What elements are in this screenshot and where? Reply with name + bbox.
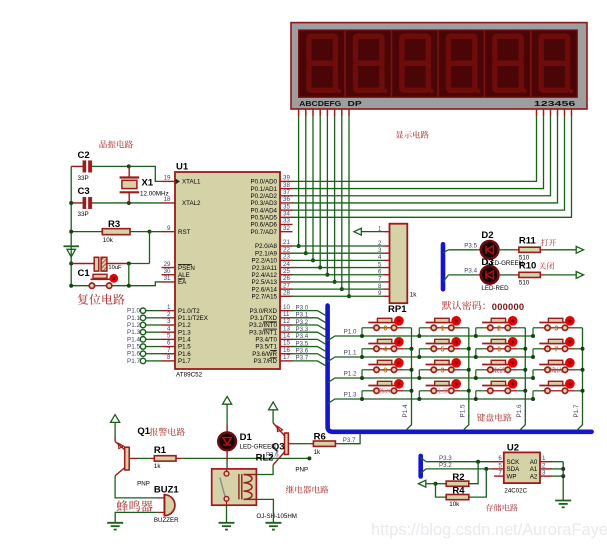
node key row2 col4 column join: [581, 347, 585, 351]
node key row1 col1 drop: [360, 334, 364, 338]
display inner window: [299, 30, 578, 97]
svg-text:WP: WP: [507, 473, 517, 480]
resistor R1 1k: [129, 457, 137, 459]
svg-text:0: 0: [383, 325, 387, 332]
capacitor C1 10uF electrolytic: [71, 263, 94, 265]
wire display segment A to P2.0: [298, 116, 300, 246]
svg-text:2: 2: [378, 240, 382, 247]
wire R1 to P3.6: [176, 457, 181, 459]
svg-text:A1: A1: [530, 466, 538, 473]
U1 pin P2.0 stub: [280, 245, 293, 247]
wire R11 to terminal: [540, 249, 544, 251]
svg-text:10k: 10k: [449, 501, 460, 508]
RP1 pin 8 stub: [384, 288, 390, 290]
svg-text:P3.3: P3.3: [439, 455, 452, 462]
wire to LED D3: [449, 274, 478, 276]
svg-text:12.00MHz: 12.00MHz: [140, 191, 169, 198]
push button key 9 row3 col2: [419, 358, 469, 378]
svg-text:15: 15: [283, 340, 290, 347]
push button key 2 row1 col3: [476, 316, 526, 336]
svg-text:PNP: PNP: [295, 466, 308, 473]
op-amp U1 body AT89C52 microcontroller: [175, 172, 280, 369]
svg-text:5: 5: [441, 346, 445, 353]
svg-text:P0.4/AD4: P0.4/AD4: [251, 207, 278, 214]
svg-text:P0.2/AD2: P0.2/AD2: [251, 193, 278, 200]
wire LED to R11: [498, 249, 502, 251]
svg-text:P1.3: P1.3: [127, 329, 140, 336]
RP1 pin 4 stub: [384, 259, 390, 261]
svg-text:26: 26: [283, 275, 290, 282]
wire left vertical ground rail: [70, 166, 72, 285]
wire bus entry P3.5: [443, 250, 449, 253]
node key row3 col2 drop: [417, 376, 421, 380]
U1 pin P0.3 stub: [280, 202, 293, 204]
svg-text:P2.0/A8: P2.0/A8: [255, 243, 278, 250]
svg-text:P1.3: P1.3: [178, 329, 191, 336]
wire terminal to P1.3: [146, 331, 162, 333]
capacitor C3: [71, 202, 83, 204]
svg-text:30: 30: [164, 268, 171, 275]
svg-text:28: 28: [283, 289, 290, 296]
svg-text:13: 13: [283, 325, 290, 332]
wire display segment D to P2.7: [348, 116, 350, 296]
ground relay coil: [272, 522, 274, 524]
svg-text:11: 11: [283, 311, 290, 318]
svg-text:P1.4: P1.4: [127, 336, 140, 343]
resistor R3: [71, 231, 102, 233]
U1 pin P1.3 stub: [162, 331, 176, 333]
push button key 取消 row3 col3: [476, 358, 526, 378]
resistor R6 1k: [313, 441, 335, 446]
svg-text:17: 17: [283, 354, 290, 361]
push button key 1 row1 col2: [419, 316, 469, 336]
digit 4 decimal point: [476, 89, 481, 94]
svg-text:P1.0: P1.0: [344, 328, 357, 335]
svg-text:25: 25: [283, 268, 290, 275]
svg-text:6: 6: [497, 346, 501, 353]
U1 pin P0.6 stub: [280, 223, 293, 225]
digit 2 segments: [356, 36, 382, 90]
svg-text:3: 3: [167, 318, 171, 325]
push button key 4 row2 col1: [362, 337, 412, 357]
push button key 0 row1 col1: [362, 316, 412, 336]
label close 关闭: [539, 262, 554, 269]
svg-text:7: 7: [167, 347, 171, 354]
label reset circuit 复位电路: [78, 294, 125, 305]
ground reset rail: [64, 245, 80, 247]
wire buzzer to ground: [157, 511, 164, 513]
digit 6 segments: [541, 36, 567, 90]
U1 pin P3.4 stub: [280, 338, 293, 340]
svg-text:P1.0: P1.0: [127, 308, 140, 315]
svg-text:29: 29: [164, 261, 171, 268]
svg-text:1k: 1k: [314, 449, 321, 456]
label open 打开: [541, 239, 557, 246]
display segment pin C: [312, 109, 314, 116]
wire P0.3 to display digit pin 4: [292, 116, 558, 203]
wire display segment D to P2.3: [319, 116, 321, 267]
svg-text:P1.6: P1.6: [178, 351, 191, 358]
svg-text:P3.7: P3.7: [343, 437, 356, 444]
svg-text:P3.0/RXD: P3.0/RXD: [249, 308, 277, 315]
node key row3 col3 column join: [523, 368, 527, 372]
svg-text:1: 1: [167, 304, 171, 311]
node terminal P1.1: [140, 315, 145, 320]
node key row2 col3 drop: [474, 355, 478, 359]
digit 3 segments: [402, 36, 428, 90]
U1 pin P3.3 stub: [280, 331, 293, 333]
node key row3 col1 column join: [410, 368, 414, 372]
push button key 确认 row3 col4: [533, 358, 583, 378]
svg-text:7: 7: [554, 346, 558, 353]
svg-text:7: 7: [498, 470, 502, 477]
svg-text:P3.5/T1: P3.5/T1: [255, 344, 277, 351]
push button key blank row4 col3: [476, 379, 526, 399]
U1 pin PSEN stub: [162, 267, 176, 269]
ground buzzer: [114, 522, 116, 524]
resistor R2: [446, 481, 469, 486]
U1 pin RST stub: [162, 231, 176, 233]
node C3 left junction: [69, 201, 73, 205]
node key row3 col2 column join: [467, 368, 471, 372]
svg-text:7: 7: [378, 276, 382, 283]
display segment pin F: [334, 109, 336, 116]
svg-text:37: 37: [283, 189, 290, 196]
node key row3 col4 drop: [531, 376, 535, 380]
digit cell separator: [530, 30, 532, 97]
power terminal Q1 emitter: [111, 415, 120, 423]
wire terminal to P1.0: [146, 310, 162, 312]
display segment pin B: [305, 109, 307, 116]
U2 pin A1 stub: [540, 468, 552, 470]
7-segment display module frame: [291, 23, 587, 109]
wire Q1 collector to buzzer: [115, 476, 157, 498]
svg-text:P3.5: P3.5: [464, 242, 477, 249]
wire R10 to terminal: [540, 274, 544, 276]
svg-text:LED-GREEN: LED-GREEN: [240, 444, 276, 451]
display pin DP: [348, 109, 350, 116]
svg-text:https://blog.csdn.net/AuroraFa: https://blog.csdn.net/AuroraFaye: [371, 521, 607, 539]
svg-text:Q1: Q1: [137, 426, 150, 437]
U1 pin P3.0 stub: [280, 310, 293, 312]
digit 6 decimal point: [568, 89, 573, 94]
node key row4 col3 drop: [474, 397, 478, 401]
node key row1 col3 drop: [474, 334, 478, 338]
node key row4 col2 drop: [417, 397, 421, 401]
relay RL2 OJ-SH-105HM: [212, 469, 257, 505]
wire bus entry P3.2: [421, 469, 426, 473]
svg-text:ALE: ALE: [178, 272, 190, 279]
wire display segment G to P2.6: [341, 116, 343, 289]
node key row2 col1 drop: [360, 355, 364, 359]
power terminal D1: [223, 396, 232, 404]
node R3 left junction: [69, 230, 73, 234]
svg-text:5: 5: [378, 261, 382, 268]
U1 pin P1.1 stub: [162, 317, 176, 319]
node key row4 col4 column join: [581, 389, 585, 393]
node C3-XTAL2 junction: [127, 201, 131, 205]
svg-text:A2: A2: [530, 473, 538, 480]
node terminal P1.2: [140, 322, 145, 327]
svg-text:P1.1: P1.1: [344, 349, 357, 356]
wire P0.0 to display digit pin 1: [292, 116, 537, 181]
resistor R4 10k: [446, 495, 469, 500]
svg-text:EA: EA: [178, 279, 187, 286]
svg-text:8: 8: [383, 367, 387, 374]
U1 pin P3.2 stub: [280, 324, 293, 326]
wire P2 rows to RP1: [292, 245, 384, 247]
svg-text:P2.4/A12: P2.4/A12: [252, 272, 278, 279]
wire RST node down to C1: [149, 232, 151, 264]
U1 pin P2.6 stub: [280, 288, 293, 290]
svg-text:R11: R11: [519, 236, 537, 247]
svg-text:C1: C1: [78, 268, 91, 279]
label default password 默认密码: [442, 301, 485, 310]
svg-text:SCK: SCK: [507, 459, 521, 466]
node key row3 col4 column join: [581, 368, 585, 372]
display digit pin 1: [536, 109, 538, 116]
svg-text:123456: 123456: [534, 99, 576, 108]
svg-text:OJ-SH-105HM: OJ-SH-105HM: [256, 513, 297, 520]
RP1 pin 3 stub: [384, 252, 390, 254]
svg-text:P2.1/A9: P2.1/A9: [255, 250, 278, 257]
RP1 pin 5 stub: [384, 267, 390, 269]
svg-text:P1.1/T2EX: P1.1/T2EX: [178, 315, 208, 322]
svg-text:2: 2: [167, 311, 171, 318]
digit 5 decimal point: [522, 89, 527, 94]
wire P3 pins bus entries: [292, 311, 326, 316]
svg-text:P3.4: P3.4: [464, 267, 477, 274]
capacitor C2: [71, 165, 83, 167]
node reset row left junction: [69, 284, 73, 288]
svg-text:X1: X1: [142, 178, 154, 189]
svg-text:P1.7: P1.7: [573, 404, 580, 417]
node C2-XTAL1 junction: [127, 164, 131, 168]
svg-text:P3.6/WR: P3.6/WR: [252, 351, 277, 358]
wire C2 to XTAL1: [129, 166, 162, 181]
svg-text:P1.1: P1.1: [127, 315, 140, 322]
wire terminal to P1.7: [146, 360, 162, 362]
wire bus entry row P1.0: [328, 336, 533, 341]
node key row1 col2 drop: [417, 334, 421, 338]
U1 pin P1.5 stub: [162, 346, 176, 348]
power terminal RP1 pin1: [354, 228, 361, 235]
svg-text:R4: R4: [452, 486, 465, 497]
wire P3.2 to U2 SDA: [426, 468, 492, 470]
svg-text:24: 24: [283, 261, 290, 268]
svg-text:LED-RED: LED-RED: [481, 285, 509, 292]
label crystal circuit 晶振电路: [100, 140, 134, 148]
svg-text:6: 6: [498, 455, 502, 462]
svg-text:000000: 000000: [492, 301, 524, 312]
svg-text:1k: 1k: [154, 463, 161, 470]
wire display segment C to P2.2: [312, 116, 314, 260]
wire display segment F to P2.5: [334, 116, 336, 282]
svg-text:16: 16: [283, 347, 290, 354]
svg-text:P1.4: P1.4: [178, 337, 191, 344]
svg-text:D1: D1: [240, 432, 253, 443]
node terminal P1.6: [140, 351, 145, 356]
svg-text:33: 33: [283, 218, 290, 225]
display digit pin 2: [543, 109, 545, 116]
buzzer BUZ1: [164, 495, 175, 516]
wire P0.2 to display digit pin 3: [292, 116, 551, 195]
svg-text:32: 32: [283, 225, 290, 232]
svg-text:22: 22: [283, 246, 290, 253]
RP1 pin 1 stub: [384, 231, 390, 233]
transistor Q1 PNP: [114, 437, 116, 442]
svg-text:R6: R6: [314, 431, 326, 442]
U1 pin P1.7 stub: [162, 360, 176, 362]
output terminal arrow: [576, 272, 583, 279]
wire R2 leads: [436, 483, 447, 485]
svg-text:RL2: RL2: [256, 453, 274, 464]
U1 pin P0.4 stub: [280, 209, 293, 211]
svg-text:36: 36: [283, 196, 290, 203]
node P3.6 wire end: [307, 456, 311, 460]
push button key 上锁 row4 col2: [419, 379, 469, 399]
display digit pin 5: [564, 109, 566, 116]
svg-text:3: 3: [554, 325, 558, 332]
wire P0.4 to display digit pin 5: [292, 116, 565, 210]
resistor R11 510: [519, 247, 540, 252]
wire R3 to RST: [150, 231, 162, 233]
svg-text:P1.5: P1.5: [460, 404, 467, 417]
wire power to RP1 pin1: [361, 231, 383, 233]
svg-text:38: 38: [283, 182, 290, 189]
digit 4 segments: [448, 36, 474, 90]
wire bus entry row P1.1: [328, 357, 533, 362]
svg-text:33P: 33P: [78, 211, 89, 218]
svg-text:4: 4: [383, 346, 387, 353]
U1 pin ALE stub: [162, 274, 176, 276]
resistor pack RP1: [390, 224, 408, 304]
node key row4 col3 column join: [523, 389, 527, 393]
svg-text:XTAL2: XTAL2: [182, 200, 201, 207]
svg-text:31: 31: [164, 275, 171, 282]
U1 pin P0.0 stub: [280, 180, 293, 182]
svg-text:2: 2: [497, 325, 501, 332]
digit 2 decimal point: [383, 89, 388, 94]
U2 WP stub: [494, 475, 504, 477]
svg-text:5: 5: [498, 462, 502, 469]
bus main P3/P1: [328, 306, 592, 432]
svg-text:34: 34: [283, 211, 290, 218]
node terminal P1.4: [140, 337, 145, 342]
svg-text:9: 9: [378, 290, 382, 297]
svg-text:P0.5/AD5: P0.5/AD5: [251, 215, 278, 222]
svg-text:C2: C2: [78, 150, 90, 161]
svg-text:C3: C3: [78, 186, 90, 197]
U1 pin P1.4 stub: [162, 338, 176, 340]
wire bus entry row P1.2: [328, 378, 533, 383]
wire bus entry P3.3: [421, 457, 426, 461]
RP1 pin 2 stub: [384, 245, 390, 247]
svg-text:P2.5/A13: P2.5/A13: [252, 279, 278, 286]
svg-text:R2: R2: [452, 472, 464, 483]
svg-text:DP: DP: [348, 99, 362, 108]
svg-text:510: 510: [519, 280, 530, 287]
push button reset: [91, 278, 111, 280]
wire keypad column P1.4: [407, 328, 412, 430]
wire keypad column P1.5: [464, 328, 469, 430]
U2 pin A0 stub: [540, 461, 552, 463]
svg-text:A0: A0: [530, 459, 538, 466]
label display circuit 显示电路: [396, 131, 429, 139]
U1 pin P1.2 stub: [162, 324, 176, 326]
node P3.3-R2 junction: [476, 460, 480, 464]
U2 pin A2 stub: [540, 475, 552, 477]
svg-text:8: 8: [378, 283, 382, 290]
wire P0.5 to display digit pin 6: [292, 116, 572, 217]
svg-text:24C02C: 24C02C: [504, 488, 527, 495]
digit 1 decimal point: [336, 89, 341, 94]
svg-text:LED-GREEN: LED-GREEN: [487, 260, 523, 267]
wire relay coil to ground: [256, 499, 273, 522]
svg-text:14: 14: [283, 333, 290, 340]
U1 pin P0.5 stub: [280, 216, 293, 218]
digit cell separator: [437, 30, 439, 97]
node C1 right junction: [127, 262, 131, 266]
wire R6 to bus P3.7: [335, 443, 341, 445]
svg-text:21: 21: [283, 239, 290, 246]
node key row2 col4 drop: [531, 355, 535, 359]
display digit pin 4: [557, 109, 559, 116]
svg-text:P1.7: P1.7: [127, 358, 140, 365]
svg-text:U1: U1: [176, 162, 189, 173]
svg-text:P0.7/AD7: P0.7/AD7: [251, 229, 278, 236]
U1 pin P2.1 stub: [280, 252, 293, 254]
svg-text:SDA: SDA: [507, 466, 521, 473]
node reset row button junction: [127, 284, 131, 288]
push button key 7 row2 col4: [533, 337, 583, 357]
svg-text:RP1: RP1: [388, 304, 407, 315]
svg-text:P3.7/RD: P3.7/RD: [254, 358, 278, 365]
RP1 pin 9 stub: [384, 295, 390, 297]
power terminal storage pullup: [418, 480, 425, 487]
ground U2: [562, 500, 564, 502]
svg-text:9: 9: [167, 225, 171, 232]
U1 XTAL1 input mark: [176, 179, 180, 185]
svg-text:9: 9: [441, 367, 445, 374]
svg-text:19: 19: [164, 175, 171, 182]
U1 pin XTAL2 stub: [162, 202, 176, 204]
svg-text:4: 4: [167, 325, 171, 332]
push button key 8 row3 col1: [362, 358, 412, 378]
svg-text:1: 1: [441, 325, 445, 332]
digit cell separator: [391, 30, 393, 97]
svg-text:P1.5: P1.5: [178, 344, 191, 351]
svg-text:RST: RST: [178, 229, 191, 236]
svg-text:P3.1/TXD: P3.1/TXD: [250, 315, 277, 322]
svg-text:XTAL1: XTAL1: [182, 179, 201, 186]
wire bus entry row P1.3: [328, 399, 533, 404]
label relay circuit 继电器电路: [286, 486, 329, 494]
push button key 修改 row4 col1: [362, 379, 412, 399]
node R3-RST junction: [148, 230, 152, 234]
wire display segment B to P2.1: [305, 116, 307, 253]
push button key blank row4 col4: [533, 379, 583, 399]
U1 pin P2.7 stub: [280, 295, 293, 297]
svg-text:P1.0/T2: P1.0/T2: [178, 308, 200, 315]
svg-text:AT89C52: AT89C52: [176, 372, 203, 379]
svg-text:4: 4: [378, 254, 382, 261]
svg-text:R3: R3: [108, 219, 120, 230]
svg-text:P1.2: P1.2: [127, 322, 140, 329]
svg-text:10: 10: [283, 304, 290, 311]
svg-text:P2.2/A10: P2.2/A10: [252, 258, 278, 265]
wire terminal to P1.4: [146, 338, 162, 340]
